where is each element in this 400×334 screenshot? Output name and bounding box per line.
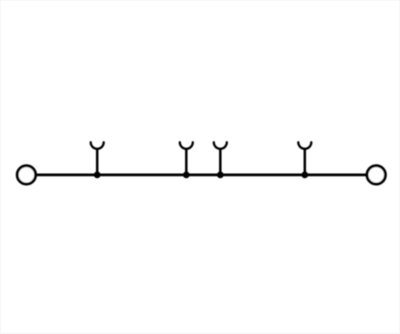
junction dot 3 bbox=[217, 172, 224, 179]
wire stem 2 bbox=[185, 149, 188, 175]
junction dot 2 bbox=[183, 172, 190, 179]
clamp contact 4 bbox=[298, 142, 311, 149]
terminal circle right bbox=[367, 166, 385, 184]
wire stem 4 bbox=[304, 149, 307, 175]
wire stem 1 bbox=[96, 149, 99, 175]
terminal circle left bbox=[17, 166, 35, 184]
wire stem 3 bbox=[219, 149, 222, 175]
junction dot 4 bbox=[301, 172, 308, 179]
clamp contact 1 bbox=[91, 142, 104, 149]
clamp contact 2 bbox=[180, 142, 193, 149]
junction dot 1 bbox=[94, 172, 101, 179]
wire bbox=[36, 174, 367, 177]
clamp contact 3 bbox=[214, 142, 227, 149]
